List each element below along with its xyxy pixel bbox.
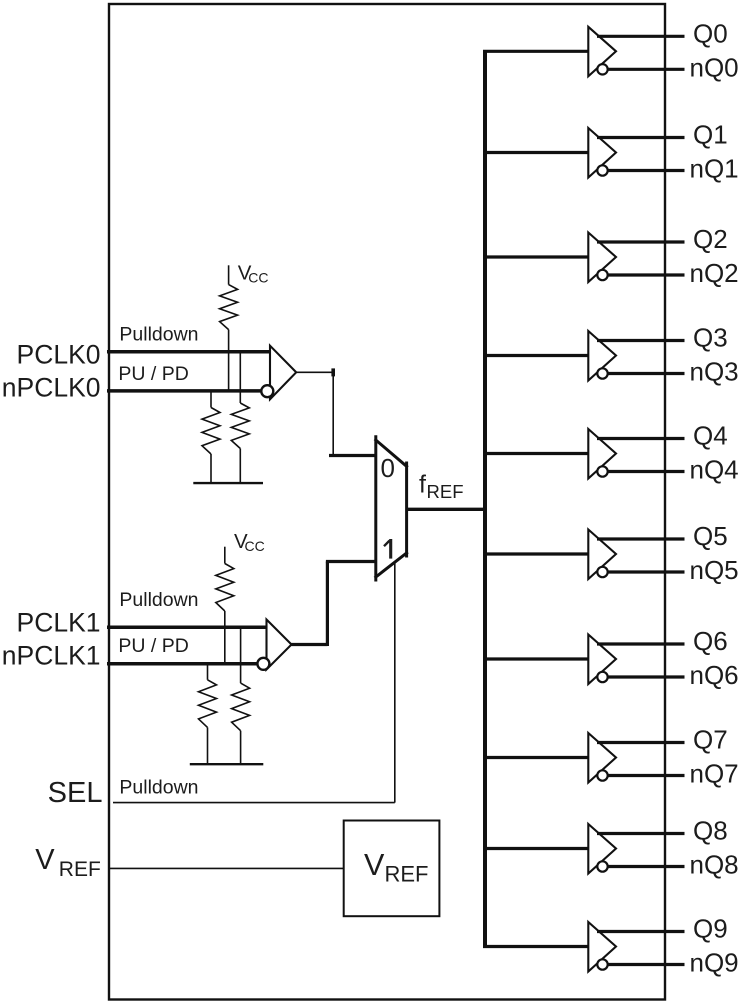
pulldown resistor on nPCLK0 [210, 391, 212, 408]
ground bar for PCLK0 pulldowns [193, 482, 263, 484]
wire: nQ1 output line [608, 169, 685, 172]
inversion bubble on U10 [597, 861, 607, 871]
pulldown resistor on nPCLK1 [207, 664, 209, 680]
svg-text:nQ1: nQ1 [690, 154, 739, 184]
output buffer U10 (differential driver Q8/nQ8) [588, 824, 616, 874]
input buffer (PCLK1 differential receiver) [267, 620, 292, 670]
wire: mux output fREF to bus [407, 508, 486, 511]
mux U1 (2:1 clock select trapezoid) [376, 437, 407, 580]
svg-text:nQ5: nQ5 [690, 555, 739, 585]
wire: bus to output buffer U9 input [483, 756, 588, 759]
svg-text:Q7: Q7 [693, 725, 728, 755]
chip boundary box [109, 4, 665, 1000]
inversion bubble on U2 [597, 64, 607, 74]
svg-text:Q6: Q6 [693, 626, 728, 656]
svg-text:CC: CC [245, 538, 265, 554]
svg-text:Q4: Q4 [693, 421, 728, 451]
wire: Q0 output line [597, 35, 685, 38]
output buffer U7 (differential driver Q5/nQ5) [588, 530, 616, 580]
wire: nQ2 output line [608, 273, 685, 276]
wire: Q2 output line [597, 240, 685, 243]
wire: nPCLK1 input line [107, 662, 258, 666]
input buffer (PCLK0 differential receiver) [270, 346, 296, 400]
svg-text:Pulldown: Pulldown [119, 589, 198, 611]
svg-text:nQ7: nQ7 [690, 759, 739, 789]
svg-text:Pulldown: Pulldown [119, 324, 198, 346]
svg-text:nQ9: nQ9 [690, 948, 739, 978]
svg-text:PU / PD: PU / PD [118, 635, 188, 657]
inversion bubble on U8 [597, 672, 607, 682]
svg-text:PU / PD: PU / PD [118, 363, 188, 385]
wire: bus to output buffer U11 input [483, 945, 588, 948]
svg-text:REF: REF [427, 481, 464, 502]
svg-text:SEL: SEL [48, 777, 103, 809]
node fREF bus (vertical distribution wire) [483, 51, 487, 946]
svg-text:nPCLK1: nPCLK1 [2, 640, 101, 670]
mux input label 1 [389, 539, 392, 559]
svg-text:nQ3: nQ3 [690, 357, 739, 387]
wire: bus to output buffer U4 input [483, 255, 588, 258]
svg-text:V: V [364, 848, 385, 882]
wire: VREF line [109, 867, 344, 869]
svg-text:nQ2: nQ2 [690, 258, 739, 288]
wire: PCLK0 input line [107, 350, 270, 354]
wire: Q9 output line [597, 930, 685, 933]
wire: nQ4 output line [608, 470, 685, 473]
inversion bubble on U5 [597, 368, 607, 378]
wire: bus to output buffer U2 input [483, 50, 588, 53]
output buffer U2 (differential driver Q0/nQ0) [588, 27, 616, 77]
pullup resistor to VCC (PCLK1 channel) [224, 547, 226, 564]
svg-text:nPCLK0: nPCLK0 [2, 373, 101, 403]
svg-text:Q9: Q9 [693, 914, 728, 944]
svg-text:nQ6: nQ6 [690, 660, 739, 690]
svg-text:nQ4: nQ4 [690, 455, 739, 485]
output buffer U5 (differential driver Q3/nQ3) [588, 331, 616, 381]
VREF block U20 [344, 821, 440, 917]
wire: bus to output buffer U5 input [483, 354, 588, 357]
pullup resistor to VCC (PCLK0 channel) [228, 265, 230, 284]
svg-text:REF: REF [385, 862, 429, 887]
inversion bubble on nPCLK1 input [257, 658, 269, 670]
wire: bus to output buffer U10 input [483, 847, 588, 850]
wire: nQ3 output line [608, 372, 685, 375]
wire: nQ7 output line [608, 774, 685, 777]
svg-text:REF: REF [59, 858, 101, 881]
svg-text:Q2: Q2 [693, 224, 728, 254]
wire: bus to output buffer U6 input [483, 452, 588, 455]
ground bar for PCLK1 pulldowns [190, 763, 263, 765]
pulldown resistor on PCLK0 [239, 352, 241, 403]
wire: PCLK1 buffer output to mux input 1 [292, 643, 328, 646]
svg-text:Q0: Q0 [693, 19, 728, 49]
inversion bubble on U6 [597, 466, 607, 476]
wire: Q3 output line [597, 339, 685, 342]
wire: nPCLK0 input line [107, 389, 262, 393]
wire: nQ8 output line [608, 865, 685, 868]
inversion bubble on U4 [597, 270, 607, 280]
svg-text:V: V [35, 844, 55, 876]
wire: nQ0 output line [608, 68, 685, 71]
inversion bubble on U3 [597, 165, 607, 175]
inversion bubble on U11 [597, 959, 607, 969]
svg-text:0: 0 [381, 453, 395, 483]
wire: SEL select line [113, 802, 395, 804]
svg-text:Pulldown: Pulldown [119, 777, 198, 799]
output buffer U11 (differential driver Q9/nQ9) [588, 922, 616, 972]
output buffer U8 (differential driver Q6/nQ6) [588, 635, 616, 685]
output buffer U3 (differential driver Q1/nQ1) [588, 128, 616, 178]
svg-text:Q8: Q8 [693, 816, 728, 846]
output buffer U4 (differential driver Q2/nQ2) [588, 233, 616, 283]
wire: nQ9 output line [608, 963, 685, 966]
wire: Q6 output line [597, 642, 685, 645]
wire: nQ5 output line [608, 570, 685, 573]
inversion bubble on nPCLK0 input [261, 385, 273, 397]
svg-text:Q3: Q3 [693, 323, 728, 353]
inversion bubble on U7 [597, 567, 607, 577]
svg-text:f: f [419, 471, 426, 499]
output buffer U9 (differential driver Q7/nQ7) [588, 733, 616, 783]
wire: mux input 1 segment [326, 560, 376, 563]
wire: mux input 0 segment [329, 454, 376, 457]
svg-text:nQ8: nQ8 [690, 850, 739, 880]
wire: bus to output buffer U8 input [483, 657, 588, 660]
wire: Q4 output line [597, 437, 685, 440]
pulldown resistor on PCLK1 [240, 627, 242, 683]
wire: Q8 output line [597, 832, 685, 835]
svg-text:PCLK0: PCLK0 [17, 340, 101, 370]
svg-text:CC: CC [248, 270, 268, 286]
svg-text:PCLK1: PCLK1 [17, 608, 101, 638]
svg-text:Q1: Q1 [693, 120, 728, 150]
wire: PCLK0 buffer output to mux input 0 [296, 371, 333, 373]
wire: bus to output buffer U7 input [483, 552, 588, 555]
wire: PCLK1 input line [107, 626, 267, 630]
wire: nQ6 output line [608, 675, 685, 678]
wire: Q1 output line [597, 136, 685, 139]
wire: bus to output buffer U3 input [483, 151, 588, 154]
wire: Q5 output line [597, 537, 685, 540]
output buffer U6 (differential driver Q4/nQ4) [588, 429, 616, 479]
svg-text:nQ0: nQ0 [690, 53, 739, 83]
inversion bubble on U9 [597, 770, 607, 780]
wire: Q7 output line [597, 741, 685, 744]
svg-text:Q5: Q5 [693, 521, 728, 551]
